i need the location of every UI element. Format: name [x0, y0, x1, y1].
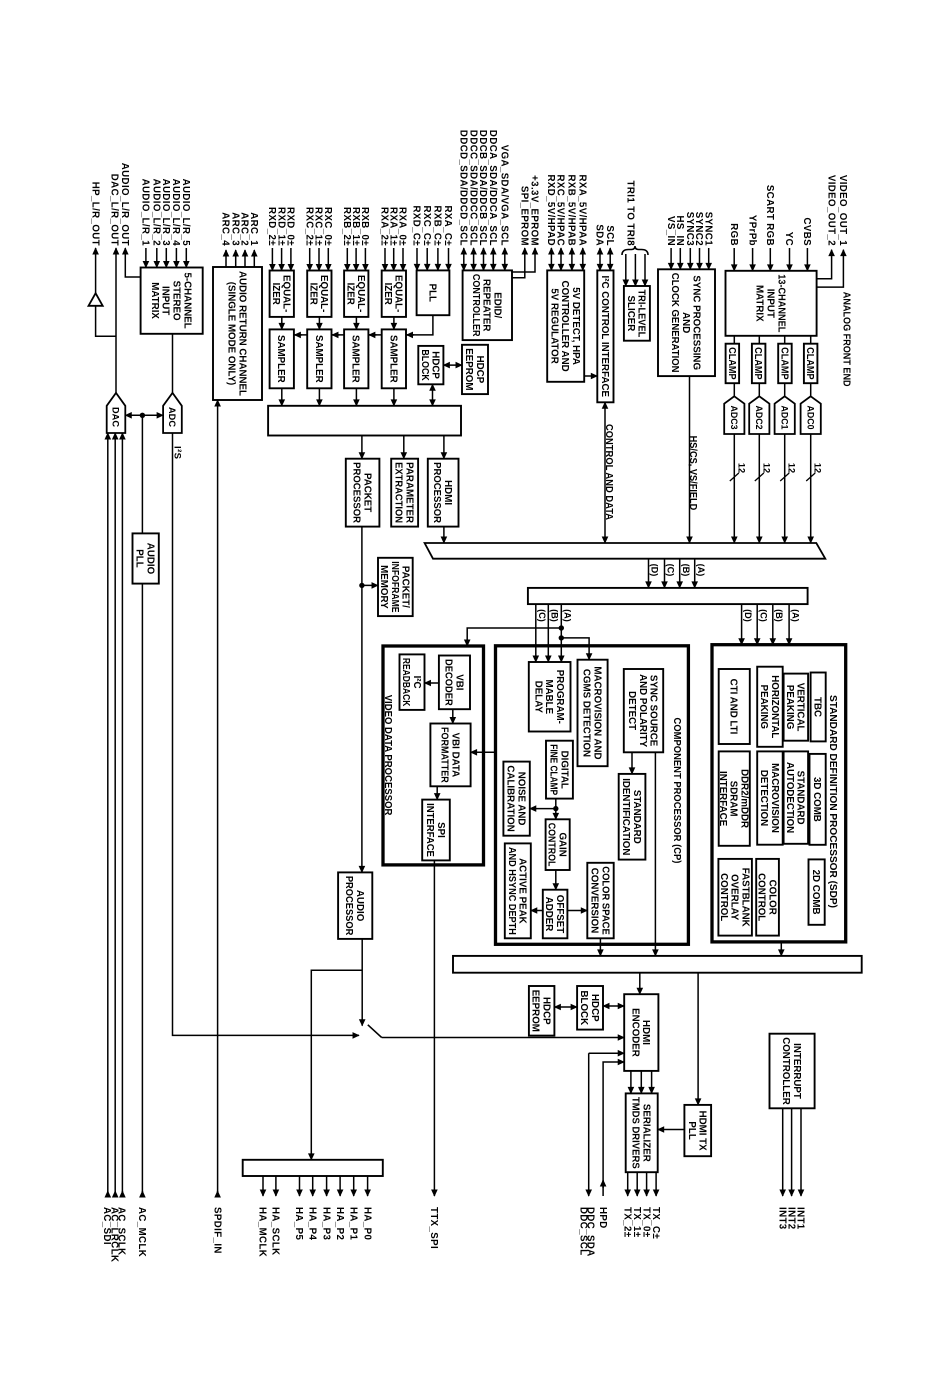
wire i2s	[173, 433, 360, 1035]
block PLL	[417, 270, 450, 315]
wire DDCA	[492, 248, 494, 270]
svg-text:DETECT: DETECT	[626, 691, 637, 731]
svg-text:(B): (B)	[774, 609, 784, 622]
wire RXD_2	[271, 248, 273, 271]
svg-text:CONTROLLER: CONTROLLER	[470, 274, 481, 337]
svg-text:12: 12	[736, 463, 746, 473]
block HDCP BLOCK	[418, 346, 443, 384]
bus hdmi front-end	[268, 406, 461, 436]
block ADC0	[801, 396, 821, 434]
svg-text:ADDER: ADDER	[543, 897, 554, 932]
wire SYNC2	[699, 248, 701, 269]
wire YPrPb	[752, 248, 754, 271]
wire AUDIO_L/R_3	[165, 248, 167, 268]
svg-text:SPI_EPROM: SPI_EPROM	[519, 186, 530, 246]
wire packet processor out	[361, 527, 363, 873]
wire sampler to bus	[355, 388, 357, 406]
svg-text:PLL: PLL	[134, 549, 145, 567]
wire syncsource to stdid	[631, 752, 633, 774]
svg-text:(B): (B)	[550, 609, 560, 622]
svg-text:STANDARD: STANDARD	[795, 771, 806, 825]
block SPI INTERFACE	[422, 800, 450, 861]
svg-text:PLL: PLL	[426, 284, 437, 302]
svg-text:TMDS DRIVERS: TMDS DRIVERS	[630, 1097, 641, 1169]
wire (C) to cp	[535, 604, 537, 662]
wire HA_P0	[367, 1176, 369, 1196]
block VERTICAL PEAKING	[784, 674, 809, 741]
svg-text:PEAKING: PEAKING	[758, 685, 769, 729]
svg-text:RGB: RGB	[728, 223, 739, 246]
wire bus3 to sdp	[772, 604, 774, 645]
wire RXA_1	[393, 248, 395, 271]
svg-text:INT1: INT1	[795, 1207, 806, 1230]
wire VIDEO_OUT_1	[817, 250, 844, 287]
svg-text:IZER: IZER	[344, 283, 355, 306]
block AUDIO PLL	[133, 533, 159, 583]
wire encoder to serializer	[630, 1071, 632, 1094]
wire clamp to adc	[758, 383, 760, 396]
svg-text:SPDIF_IN: SPDIF_IN	[211, 1207, 222, 1254]
svg-text:HA_P4: HA_P4	[306, 1207, 317, 1240]
svg-text:PROCESSOR: PROCESSOR	[431, 462, 442, 523]
svg-text:PROCESSOR: PROCESSOR	[343, 876, 354, 936]
svg-text:PROCESSOR: PROCESSOR	[351, 462, 362, 523]
block PARAMETER EXTRACTION	[391, 459, 418, 527]
wire offset to csc	[567, 910, 587, 912]
svg-text:BLOCK: BLOCK	[578, 991, 589, 1026]
svg-text:CLAMP: CLAMP	[752, 347, 763, 380]
svg-text:PACKET/: PACKET/	[400, 566, 411, 608]
svg-text:MEMORY: MEMORY	[378, 565, 389, 609]
svg-text:ACTIVE PEAK: ACTIVE PEAK	[517, 858, 528, 924]
svg-text:IZER: IZER	[270, 283, 281, 306]
svg-text:AUDIO: AUDIO	[354, 890, 365, 921]
block TBC	[811, 673, 826, 742]
wire INT2	[791, 1108, 793, 1196]
svg-text:13-CHANNEL: 13-CHANNEL	[775, 274, 786, 332]
wire RXB_2	[346, 248, 348, 271]
wire arrow into sampler	[407, 334, 415, 336]
svg-text:EQUAL-: EQUAL-	[355, 275, 366, 312]
block NOISE AND CALIBRATION	[503, 762, 529, 836]
svg-text:DDCB_SDA/DDCB_SCL: DDCB_SDA/DDCB_SCL	[477, 130, 488, 246]
block I2C CONTROL INTERFACE	[597, 270, 613, 402]
wire HP branch	[96, 306, 116, 337]
svg-text:5V DETECT, HPA: 5V DETECT, HPA	[570, 287, 581, 365]
svg-text:TX_2±: TX_2±	[621, 1207, 632, 1238]
block HORIZONTAL PEAKING	[757, 667, 783, 747]
wire TRI	[644, 254, 646, 286]
block 5V DETECT HPA CONTROLLER AND 5V REGULATOR	[547, 270, 584, 381]
block ACTIVE PEAK AND HSYNC DEPTH	[505, 843, 531, 938]
svg-text:HA_P3: HA_P3	[320, 1207, 331, 1240]
svg-text:MABLE: MABLE	[543, 680, 554, 715]
wire bus3 to sdp	[741, 604, 743, 645]
wire ADC3 data	[733, 434, 735, 543]
wire SPI_EPROM	[512, 248, 525, 278]
svg-text:HA_MCLK: HA_MCLK	[257, 1207, 268, 1257]
wire clamp to gain	[555, 799, 557, 820]
svg-text:ADC3: ADC3	[728, 406, 739, 430]
wire HA_P1	[353, 1176, 355, 1196]
wire ADC1 data	[784, 434, 786, 543]
svg-text:EDID/: EDID/	[492, 292, 503, 318]
svg-text:TX_C±: TX_C±	[650, 1207, 661, 1239]
svg-text:DECODER: DECODER	[443, 659, 454, 706]
wire INT1	[800, 1108, 802, 1196]
svg-text:INT3: INT3	[776, 1207, 787, 1230]
wire clamp to adc	[733, 383, 735, 396]
wire HA_SCLK	[275, 1176, 277, 1196]
block 5-CHANNEL STEREO INPUT MATRIX	[141, 268, 203, 334]
wire A to vdp	[467, 628, 561, 646]
bus slash	[730, 473, 739, 481]
svg-text:HDMI TX: HDMI TX	[697, 1111, 708, 1151]
wire RXD_5V/HPAD	[550, 248, 552, 270]
svg-text:HA_SCLK: HA_SCLK	[270, 1207, 281, 1256]
svg-text:SDRAM: SDRAM	[728, 781, 739, 817]
wire RXD_1	[281, 248, 283, 271]
junction A1	[559, 625, 564, 630]
svg-text:STEREO: STEREO	[171, 281, 182, 321]
block HDCP BLOCK tx	[577, 986, 603, 1030]
block HDCP EEPROM tx	[529, 986, 555, 1036]
wire ttx_spi	[433, 860, 435, 1196]
wire ADC2 data	[758, 434, 760, 543]
wire vbi to readback	[425, 682, 439, 684]
svg-text:VGA_SDA/VGA_SCL: VGA_SDA/VGA_SCL	[499, 145, 510, 246]
wire +3.3V_EPROM	[512, 248, 535, 272]
svg-text:DELAY: DELAY	[532, 681, 543, 713]
block EDID/REPEATER CONTROLLER	[463, 270, 512, 340]
wire bus3 to sdp	[788, 604, 790, 645]
wire TX_0	[646, 1172, 648, 1196]
block VBI DECODER	[439, 656, 470, 710]
block CLAMP2	[752, 344, 766, 384]
svg-text:RXC_C±: RXC_C±	[421, 205, 432, 246]
svg-text:(C): (C)	[537, 609, 547, 622]
svg-text:SERIALIZER: SERIALIZER	[641, 1104, 652, 1163]
wire RXD_0	[290, 248, 292, 271]
wire RXC_C	[426, 248, 428, 270]
svg-text:VBI DATA: VBI DATA	[449, 733, 460, 778]
wire bus to processor	[403, 436, 405, 459]
block ADC3	[724, 396, 744, 434]
svg-text:VIDEO_OUT_1: VIDEO_OUT_1	[837, 175, 848, 246]
wire HA_P2	[339, 1176, 341, 1196]
wire arrow into sampler	[332, 334, 340, 336]
svg-text:DAC: DAC	[110, 407, 121, 427]
wire AC in	[114, 433, 116, 1197]
block SAMPLER 1	[270, 329, 294, 388]
svg-text:ADC: ADC	[166, 407, 177, 427]
svg-text:DDR2/mDDR: DDR2/mDDR	[739, 769, 750, 829]
block HDMI ENCODER	[624, 994, 658, 1071]
svg-text:I²C CONTROL INTERFACE: I²C CONTROL INTERFACE	[599, 276, 610, 398]
wire RGB	[733, 248, 735, 271]
wire SCL	[609, 248, 611, 270]
wire RXA_5V/HPAA	[582, 248, 584, 270]
svg-text:(A): (A)	[563, 609, 573, 622]
svg-text:ARC_3: ARC_3	[229, 212, 240, 246]
wire ADC0 data	[810, 434, 812, 543]
wire to infoframe memory	[362, 584, 378, 586]
svg-text:MATRIX: MATRIX	[754, 285, 765, 322]
svg-text:PLL: PLL	[686, 1121, 697, 1139]
bus slash	[755, 473, 764, 481]
wire SYNC1	[708, 248, 710, 269]
wire AUDIO_L/R_OUT	[125, 248, 140, 277]
block VBI DATA FORMATTER	[430, 724, 470, 787]
block HDMI PROCESSOR	[428, 459, 459, 527]
block FASTBLANK OVERLAY CONTROL	[718, 859, 752, 936]
block STANDARD AUTODECTION	[784, 751, 809, 843]
svg-text:CONTROL: CONTROL	[546, 823, 557, 867]
wire bus4 to txpll	[697, 973, 699, 1105]
svg-text:CONVERSION: CONVERSION	[589, 868, 600, 934]
svg-text:TX_0±: TX_0±	[640, 1207, 651, 1238]
wire sync source to backend bus	[654, 752, 656, 956]
block PACKET/INFOFRAME MEMORY	[378, 558, 413, 616]
svg-text:AUDIO_L/R_2: AUDIO_L/R_2	[151, 179, 162, 246]
svg-text:(B): (B)	[681, 564, 691, 577]
wire SYNC3	[689, 248, 691, 269]
wire HA_MCLK	[262, 1176, 264, 1196]
svg-text:CONTROLLER: CONTROLLER	[780, 1037, 791, 1105]
svg-text:STANDARD DEFINITION PROCESSOR: STANDARD DEFINITION PROCESSOR (SDP)	[827, 695, 838, 908]
block PROGRAMMABLE DELAY	[529, 662, 571, 732]
svg-text:DIGITAL: DIGITAL	[558, 751, 569, 789]
wire formatter to spi	[436, 786, 438, 799]
wire AUDIO_L/R_1	[145, 248, 147, 268]
wire PLL clock feed	[294, 315, 433, 335]
bus slash	[780, 473, 789, 481]
svg-text:INTERFACE: INTERFACE	[424, 803, 435, 857]
svg-text:RXD_5V/HPAD: RXD_5V/HPAD	[545, 174, 556, 246]
wire (D) link	[648, 559, 650, 588]
svg-text:AC_MCLK: AC_MCLK	[136, 1207, 147, 1257]
wire AUDIO_L/R_4	[175, 248, 177, 268]
svg-text:AND POLARITY: AND POLARITY	[637, 674, 648, 747]
wire (B) link	[679, 559, 681, 588]
svg-text:CONTROL AND DATA: CONTROL AND DATA	[603, 424, 614, 520]
wire AUDIO_L/R_2	[156, 248, 158, 268]
junction packet line	[359, 583, 364, 588]
svg-text:AND: AND	[680, 312, 691, 333]
block SYNC SOURCE AND POLARITY DETECT	[624, 669, 663, 752]
svg-text:CLAMP: CLAMP	[804, 347, 815, 380]
wire TRI	[634, 254, 636, 286]
wire HA_P4	[312, 1176, 314, 1196]
wire SDA	[599, 248, 601, 270]
svg-text:(A): (A)	[696, 564, 706, 577]
svg-text:5-CHANNEL: 5-CHANNEL	[181, 272, 192, 328]
svg-text:AUDIO_L/R_3: AUDIO_L/R_3	[160, 179, 171, 247]
wire equalizer to sampler	[355, 317, 357, 330]
wire audio proc out	[361, 939, 363, 1026]
svg-text:HS/CS, VS/FIELD: HS/CS, VS/FIELD	[687, 436, 698, 511]
svg-text:EEPROM: EEPROM	[530, 990, 541, 1032]
wire matrix to adc	[172, 334, 174, 393]
svg-text:CONTROL: CONTROL	[718, 873, 729, 921]
svg-text:COMPONENT PROCESSOR (CP): COMPONENT PROCESSOR (CP)	[671, 718, 682, 864]
wire TX_2	[627, 1172, 629, 1196]
svg-text:INPUT: INPUT	[765, 289, 776, 319]
wire txpll to serializer	[658, 1129, 685, 1131]
wire AUDIO_L/R_5	[185, 248, 187, 268]
svg-text:SCL: SCL	[604, 225, 615, 246]
svg-text:MACROVISION: MACROVISION	[769, 763, 780, 833]
svg-text:(SINGLE MODE ONLY): (SINGLE MODE ONLY)	[226, 282, 237, 386]
svg-text:STANDARD: STANDARD	[631, 790, 642, 844]
svg-text:SCART RGB: SCART RGB	[764, 185, 775, 246]
wire encoder to serializer	[640, 1071, 642, 1094]
svg-text:I²S: I²S	[172, 446, 183, 460]
wire tee to ha bus	[311, 970, 362, 1160]
svg-text:SYNC PROCESSING: SYNC PROCESSING	[691, 275, 702, 370]
svg-text:GAIN: GAIN	[557, 832, 568, 856]
svg-text:VIDEO DATA PROCESSOR: VIDEO DATA PROCESSOR	[382, 695, 393, 816]
svg-text:AUDIO_L/R_1: AUDIO_L/R_1	[140, 179, 151, 247]
wire to audio pll	[141, 415, 143, 533]
svg-text:(C): (C)	[666, 564, 676, 577]
wire clamp to adc	[810, 383, 812, 396]
svg-text:NOISE AND: NOISE AND	[515, 772, 526, 826]
svg-text:HDCP: HDCP	[474, 356, 485, 384]
wire gain to offset	[555, 870, 557, 890]
svg-text:2D COMB: 2D COMB	[810, 870, 821, 915]
wire RXC_1	[318, 248, 320, 271]
svg-text:RXC_5V/HPAC: RXC_5V/HPAC	[555, 174, 566, 246]
block AUDIO PROCESSOR	[338, 872, 372, 939]
svg-text:AUDIO_L/R_OUT: AUDIO_L/R_OUT	[119, 163, 130, 246]
svg-text:ANALOG FRONT END: ANALOG FRONT END	[841, 292, 852, 387]
svg-text:RXB_2±: RXB_2±	[341, 207, 352, 246]
svg-text:DDC_SCL: DDC_SCL	[578, 1207, 589, 1256]
svg-text:SYNC3: SYNC3	[684, 212, 695, 247]
block CLAMP3	[726, 344, 740, 384]
svg-text:SAMPLER: SAMPLER	[387, 335, 398, 383]
junction audio pll	[140, 413, 145, 418]
wire HS_IN	[679, 248, 681, 269]
svg-text:MACROVISION AND: MACROVISION AND	[591, 666, 602, 759]
wire sampler to bus	[318, 388, 320, 406]
block OFFSET ADDER	[543, 890, 568, 939]
block audio ADC	[163, 393, 182, 433]
wire DDC	[588, 1053, 590, 1196]
svg-text:SPI: SPI	[435, 822, 446, 838]
wire YC	[789, 248, 791, 271]
wire CVBS	[806, 248, 808, 271]
block INTERRUPT CONTROLLER	[770, 1034, 815, 1109]
svg-text:SYNC SOURCE: SYNC SOURCE	[648, 675, 659, 747]
wire bus4 to encoder	[639, 973, 641, 995]
wire ARC_1	[253, 250, 255, 267]
wire clamp to adc	[784, 383, 786, 396]
svg-text:OVERLAY: OVERLAY	[729, 874, 740, 920]
wire AC in	[121, 433, 123, 1197]
wire arrow into sampler	[369, 334, 377, 336]
svg-text:AUDIO RETURN CHANNEL: AUDIO RETURN CHANNEL	[236, 271, 247, 396]
block ADC2	[749, 396, 769, 434]
svg-text:CONTROL: CONTROL	[756, 873, 767, 921]
block SYNC PROCESSING AND CLOCK GENERATION	[658, 269, 715, 376]
wire equalizer to sampler	[318, 317, 320, 330]
svg-text:FORMATTER: FORMATTER	[439, 727, 450, 783]
block EQUALIZER 2	[307, 271, 331, 317]
wire encoder to serializer	[651, 1071, 653, 1094]
svg-text:PARAMETER: PARAMETER	[404, 462, 415, 524]
wire to noise calib	[530, 808, 556, 810]
wire equalizer to sampler	[281, 317, 283, 330]
svg-text:HDCP: HDCP	[589, 994, 600, 1022]
svg-text:3D COMB: 3D COMB	[811, 777, 822, 822]
block MACROVISION DETECTION	[757, 751, 783, 844]
svg-text:AUDIO_L/R_4: AUDIO_L/R_4	[170, 179, 181, 247]
wire control and data	[604, 402, 606, 543]
svg-text:CALIBRATION: CALIBRATION	[505, 765, 516, 831]
svg-text:(C): (C)	[758, 609, 768, 622]
svg-text:EQUAL-: EQUAL-	[281, 275, 292, 312]
brace TRI1 TO TRI8	[622, 246, 648, 255]
wire vbi to formatter	[452, 709, 454, 723]
svg-text:HA_P0: HA_P0	[361, 1207, 372, 1240]
svg-text:COLOR: COLOR	[766, 880, 777, 916]
wire (B) to cp	[547, 604, 549, 662]
svg-text:SDA: SDA	[594, 224, 605, 246]
svg-text:HA_P5: HA_P5	[293, 1207, 304, 1240]
wire AC in	[107, 433, 109, 1197]
svg-text:I²C: I²C	[411, 676, 422, 690]
svg-text:PACKET: PACKET	[361, 473, 372, 513]
wire RXA_C	[448, 248, 450, 270]
wire RXC_2	[309, 248, 311, 271]
svg-text:RXA_5V/HPAA: RXA_5V/HPAA	[577, 174, 588, 246]
svg-text:HDMI: HDMI	[442, 480, 453, 505]
wire DDC up	[589, 1052, 625, 1054]
svg-text:CLAMP: CLAMP	[778, 347, 789, 380]
svg-text:AND HSYNC DEPTH: AND HSYNC DEPTH	[506, 847, 517, 935]
block PACKET PROCESSOR	[346, 459, 380, 527]
svg-text:VBI: VBI	[453, 674, 464, 690]
svg-text:READBACK: READBACK	[400, 658, 411, 707]
svg-text:+3.3V_EPROM: +3.3V_EPROM	[529, 175, 540, 246]
wire RXB_0	[364, 248, 366, 271]
wire RXB_1	[355, 248, 357, 271]
svg-text:TX_1±: TX_1±	[631, 1207, 642, 1238]
bus backend	[453, 956, 862, 973]
svg-text:TTX_SPI: TTX_SPI	[428, 1207, 439, 1249]
block SAMPLER 2	[307, 329, 331, 388]
block I2C READBACK	[400, 654, 425, 710]
block COLOR SPACE CONVERSION	[587, 863, 613, 939]
svg-text:COLOR SPACE: COLOR SPACE	[599, 866, 610, 935]
svg-text:DAC_L/R_OUT: DAC_L/R_OUT	[109, 174, 120, 246]
svg-text:YC: YC	[783, 232, 794, 246]
wire TX_C	[655, 1172, 657, 1196]
wire bus to processor	[443, 436, 445, 459]
block STANDARD IDENTIFICATION	[619, 774, 646, 860]
block CLAMP0	[804, 344, 818, 384]
block MACROVISION AND CGMS DETECTION	[578, 660, 608, 767]
block SAMPLER 4	[382, 329, 406, 388]
svg-text:INPUT: INPUT	[160, 286, 171, 316]
block SERIALIZER TMDS DRIVERS	[626, 1093, 658, 1172]
block DDR2/mDDR SDRAM INTERFACE	[717, 751, 750, 845]
wire ARC_2	[244, 250, 246, 267]
wire hdmi processor out	[443, 527, 445, 543]
wire cp to formatter	[471, 751, 496, 753]
